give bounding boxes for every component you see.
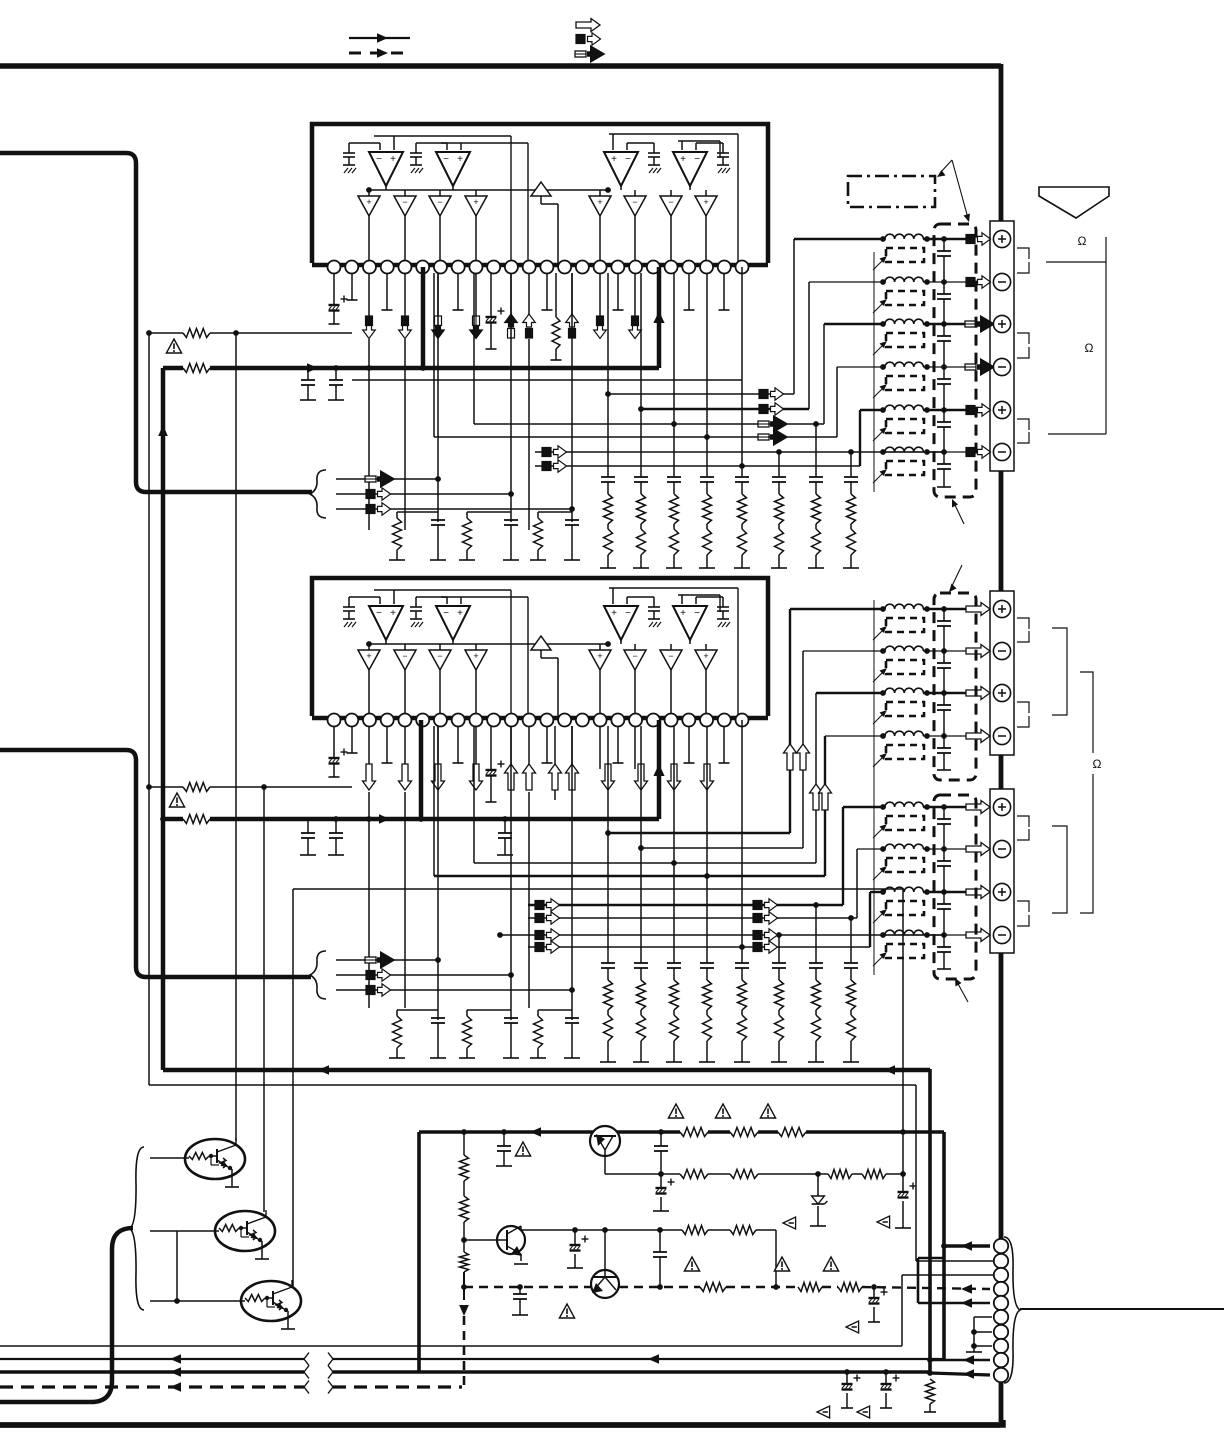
mid bracket group2 (1052, 628, 1067, 715)
svg-text:+: + (390, 608, 396, 619)
IC IC601 driver stage at x=369 (368, 190, 370, 196)
long droppers under markers (368, 792, 370, 1008)
mid bracket group3 (1052, 826, 1067, 913)
zobel column x=674 (673, 424, 675, 477)
IC2 pin24 drop (741, 720, 743, 947)
terminal - y=849 (993, 840, 1010, 857)
zobel column x=851 (850, 452, 852, 477)
bus line 2 (0, 1358, 304, 1360)
ground under pin x=387 (386, 273, 388, 310)
thick riser to IC2 pin19 (657, 720, 662, 819)
ground under pin x=618 (617, 273, 619, 310)
output filter ch y=935 (883, 934, 944, 936)
terminal - y=651 (993, 642, 1010, 659)
IC IC601 op-amp at x=386 (348, 143, 350, 153)
digital transistor at 271,1301 (241, 1281, 301, 1321)
ground under pin x=547 (546, 273, 548, 310)
svg-text:+: + (703, 651, 708, 661)
terminal + y=239 (993, 230, 1010, 247)
input line 2 (336, 974, 511, 976)
zobel column x=816 (815, 905, 817, 963)
sense loop to connector (149, 1084, 916, 1086)
series resistors on top rail (680, 1128, 708, 1137)
IC IC601 op-amp at x=453 (415, 143, 417, 153)
input RC pair at x=397 (397, 511, 438, 513)
svg-text:+: + (611, 608, 617, 619)
zobel column x=707 (706, 437, 708, 477)
coupling cap y=239 (943, 239, 945, 251)
IC1 pin24 drop (741, 267, 743, 466)
cap x=504 inside box (503, 1132, 505, 1146)
R chain left inside box x=464 (463, 1132, 465, 1155)
connector strip group1 (990, 221, 1014, 471)
IC IC601 op-amp at x=621 (653, 143, 655, 153)
electrolytic C under pin10 (490, 726, 492, 770)
power rail vertical (161, 368, 166, 1070)
ground under pin x=724 (723, 726, 725, 763)
dashed control line (464, 1286, 591, 1288)
svg-text:+: + (390, 154, 396, 165)
sense resistor x=930 (926, 1379, 935, 1404)
zobel column x=779 (778, 935, 780, 963)
zobel column x=674 (673, 863, 675, 963)
IC IC601 driver stage at x=706 (705, 190, 707, 196)
svg-text:−: − (632, 197, 637, 207)
terminal - y=935 (993, 926, 1010, 943)
zobel column x=641 (640, 848, 642, 963)
c9 feed (930, 1359, 990, 1362)
svg-text:+: + (366, 651, 371, 661)
coupling cap y=609 (943, 609, 945, 621)
IC IC601 pins (328, 261, 341, 274)
svg-text:−: − (443, 608, 449, 619)
output filter ch y=367 (837, 366, 883, 368)
output filter ch y=609 (790, 608, 883, 610)
IC IC602 pins (328, 714, 341, 727)
input line 2 (336, 493, 511, 495)
callout arrow to shield3 bottom (957, 982, 968, 1002)
electrolytic C under pin1 (333, 273, 335, 305)
IC IC602 op-amp at x=453 (415, 597, 417, 607)
electrolytic C under pin10 (490, 273, 492, 317)
input line 3 (336, 989, 572, 991)
legend open arrow (576, 19, 600, 32)
pair bracket (1017, 248, 1029, 259)
IC IC601 driver stage at x=440 (439, 190, 441, 196)
IC IC601 outline (312, 124, 768, 263)
fold line group23 (873, 600, 875, 975)
IC IC601 driver stage at x=600 (599, 190, 601, 196)
bypass caps section1 (307, 368, 309, 380)
signal arrows under IC2 pins (363, 764, 376, 790)
ground under pin x=387 (386, 726, 388, 763)
speaker bracket group1 (1046, 261, 1106, 263)
bypass caps section2 (307, 819, 309, 833)
power rail horizontal bottom (163, 1068, 930, 1073)
svg-text:−: − (402, 651, 407, 661)
svg-text:−: − (668, 651, 673, 661)
stubs pin to markers (368, 273, 370, 316)
connector brace (1004, 1237, 1020, 1383)
callout arrow to shield2 top (951, 565, 962, 588)
svg-text:−: − (437, 651, 442, 661)
IC IC602 driver stage at x=405 (404, 644, 406, 650)
ground pin2 (351, 273, 353, 300)
output filter ch y=410 (860, 409, 883, 411)
output filter ch y=807 (843, 806, 883, 808)
pair bracket (1017, 816, 1029, 827)
IC IC602 driver stage at x=476 (475, 644, 477, 650)
input brace (310, 951, 326, 999)
cap x=520 under dashed (519, 1287, 521, 1294)
svg-text:−: − (376, 608, 382, 619)
protection circuit top rail (419, 1130, 680, 1134)
caps near connector bottom (844, 1369, 850, 1375)
terminal - y=282 (993, 273, 1010, 290)
line to Q1 (235, 333, 237, 1141)
output filter ch y=282 (809, 281, 883, 283)
line to Q2 (263, 787, 265, 1212)
legend black-square open arrow (576, 35, 585, 44)
ch5 route (535, 465, 860, 467)
coupling cap y=693 (943, 693, 945, 705)
svg-text:+: + (457, 608, 463, 619)
bias line under top rail (605, 1173, 680, 1175)
ch693 route (473, 726, 475, 863)
IC IC602 op-amp at x=386 (348, 597, 350, 607)
input coupling riser x=511 (510, 726, 512, 1020)
shield dashed outline (934, 795, 976, 979)
svg-text:+: + (473, 197, 478, 207)
svg-text:+: + (703, 197, 708, 207)
input coupling riser x=438 (437, 273, 439, 522)
callout arrow to legend box (940, 160, 952, 173)
output filter ch y=324 (824, 323, 883, 325)
riser arrows group2 (784, 744, 797, 770)
input RC pair at x=467 (467, 1009, 511, 1011)
connector strip group2 (990, 591, 1014, 755)
thick drop right x=930 (928, 1069, 932, 1373)
input RC pair at x=397 (397, 1009, 438, 1011)
zobel column x=641 (640, 409, 642, 477)
IC IC602 driver stage at x=600 (599, 644, 601, 650)
speaker symbol (1039, 187, 1109, 218)
ch2 route (640, 273, 642, 409)
connector CN bottom-right (994, 1239, 1008, 1253)
svg-text:+: + (680, 608, 686, 619)
resistor to ground under pin14 (555, 273, 557, 317)
zobel column x=742 (741, 466, 743, 477)
IC IC601 driver stage at x=671 (670, 190, 672, 196)
IC IC602 internal wiring (369, 643, 608, 645)
terminal - y=452 (993, 443, 1010, 460)
svg-text:Ω: Ω (1085, 341, 1094, 355)
coupling cap y=651 (943, 651, 945, 663)
coupling cap y=367 (943, 367, 945, 379)
input RC pair at x=467 (467, 511, 511, 513)
input line 1 (336, 478, 438, 480)
ch935 route straight (500, 934, 944, 936)
IC2 pin6 thick drop (419, 720, 424, 819)
IC IC602 buffer triangle (531, 636, 551, 650)
legend white-square black arrow (575, 51, 586, 57)
svg-text:+: + (457, 154, 463, 165)
R feed thin section2 (149, 786, 183, 788)
svg-text:−: − (694, 154, 700, 165)
ecap x=903 (902, 1174, 904, 1192)
ch736 route (433, 726, 435, 876)
svg-text:+: + (473, 651, 478, 661)
IC IC602 driver stage at x=671 (670, 644, 672, 650)
ch892 route (528, 946, 870, 948)
c5 feed thick (918, 1257, 944, 1260)
R feed thin section1 (149, 332, 183, 334)
terminal - y=736 (993, 727, 1010, 744)
digital transistor at 245,1231 (215, 1211, 275, 1251)
third resistor below junction (463, 1240, 465, 1252)
input coupling riser x=572 (571, 273, 573, 522)
ground under pin x=618 (617, 726, 619, 763)
callout arrow to shield1 bottom (954, 503, 964, 524)
terminal + y=892 (993, 883, 1010, 900)
zobel column x=742 (741, 947, 743, 963)
R feed thick section2 (163, 817, 183, 822)
ground under pin x=458 (457, 273, 459, 310)
ground under pin x=689 (688, 726, 690, 763)
svg-text:−: − (668, 197, 673, 207)
IC IC602 op-amp at x=621 (653, 597, 655, 607)
svg-text:+: + (366, 197, 371, 207)
zobel column x=707 (706, 876, 708, 963)
output filter ch y=892 (870, 891, 883, 893)
transistor Q4 on top rail (590, 1126, 620, 1156)
input coupling riser x=511 (510, 273, 512, 522)
svg-text:+: + (597, 651, 602, 661)
IC IC601 driver stage at x=635 (634, 190, 636, 196)
ch609 route (607, 726, 609, 833)
IC IC601 op-amp at x=690 (722, 143, 724, 153)
feed to connector c1 (944, 1244, 990, 1248)
input coupling riser x=438 (437, 726, 439, 1020)
shield legend box (848, 176, 935, 207)
ground under pin x=724 (723, 273, 725, 310)
coupling cap y=324 (943, 324, 945, 336)
svg-text:−: − (443, 154, 449, 165)
link Q2-Q3 inputs (176, 1231, 178, 1301)
svg-text:−: − (376, 154, 382, 165)
svg-text:+: + (597, 197, 602, 207)
bus line 4 dashed (0, 1385, 304, 1388)
ch1 route (607, 273, 609, 394)
input feed line mid-left (0, 750, 311, 977)
ch849 route (528, 917, 857, 919)
coupling cap y=935 (943, 935, 945, 947)
IC IC601 internal wiring (369, 189, 608, 191)
line to edge from connector (1020, 1308, 1224, 1310)
ch4 route (433, 273, 435, 437)
legend dashed-line arrow (349, 52, 412, 55)
ch807 route (528, 904, 843, 906)
terminal + y=324 (993, 315, 1010, 332)
terminal + y=807 (993, 798, 1010, 815)
input coupling riser x=572 (571, 726, 573, 1020)
fold line group1 (873, 252, 875, 492)
Q5 collector line (520, 1226, 522, 1230)
brace for transistor group (130, 1147, 144, 1310)
svg-text:+: + (611, 154, 617, 165)
cap + ecap column x=661 (660, 1132, 662, 1146)
output filter ch y=452 (883, 451, 944, 453)
c10 feed (930, 1373, 990, 1375)
pair bracket (1017, 702, 1029, 713)
IC IC601 buffer triangle (531, 182, 551, 196)
bus line thin (0, 1345, 902, 1347)
connector strip group3 (990, 789, 1014, 953)
pair bracket (1017, 901, 1029, 912)
svg-text:−: − (402, 197, 407, 207)
terminal + y=693 (993, 684, 1010, 701)
zobel column x=608 (607, 394, 609, 477)
coupling cap y=892 (943, 892, 945, 904)
legend solid-line arrow (349, 37, 410, 39)
ground under pin x=458 (457, 726, 459, 763)
ground under pin x=547 (546, 726, 548, 763)
terminal + y=410 (993, 401, 1010, 418)
pair bracket (1017, 333, 1029, 344)
zobel column x=816 (815, 424, 817, 477)
terminal + y=609 (993, 600, 1010, 617)
protection box left rail (417, 1132, 421, 1372)
pair bracket (1017, 618, 1029, 629)
zobel column x=851 (850, 918, 852, 963)
IC IC601 driver stage at x=476 (475, 190, 477, 196)
output filter ch y=239 (794, 238, 883, 240)
ch3 route (473, 273, 475, 424)
ground under pin x=689 (688, 273, 690, 310)
coupling cap y=736 (943, 736, 945, 748)
svg-text:−: − (625, 154, 631, 165)
ecap x=575 (574, 1230, 576, 1245)
pair bracket (1017, 419, 1029, 430)
svg-text:−: − (694, 608, 700, 619)
return arrow on bus2 (648, 1354, 659, 1364)
input line 1 (336, 959, 438, 961)
long droppers under markers (368, 339, 370, 530)
main board border (0, 63, 1001, 69)
IC IC602 driver stage at x=440 (439, 644, 441, 650)
sense rail vertical (148, 333, 150, 1085)
zener to gnd (817, 1174, 819, 1196)
output filter ch y=736 (825, 735, 883, 737)
ecap x=874 under dashed (873, 1287, 875, 1298)
IC1 pin6 thick drop (421, 267, 426, 368)
transistor Q5 (497, 1226, 525, 1254)
IC IC602 driver stage at x=706 (705, 644, 707, 650)
coupling cap y=410 (943, 410, 945, 422)
input RC pair at x=538 (538, 511, 572, 513)
svg-text:Ω: Ω (1093, 757, 1102, 771)
coupling cap y=849 (943, 849, 945, 861)
signal arrows under IC1 pins (366, 316, 373, 326)
IC IC601 driver stage at x=405 (404, 190, 406, 196)
electrolytic C under pin1 (333, 726, 335, 758)
aux line y380 (352, 379, 742, 381)
IC IC602 outline (312, 578, 768, 716)
svg-text:−: − (632, 651, 637, 661)
protection box right rail (942, 1132, 946, 1359)
shield dashed outline (934, 593, 976, 780)
IC IC602 op-amp at x=690 (722, 597, 724, 607)
R feed thick section1 (163, 366, 183, 371)
cap x=660 to dashed (659, 1230, 661, 1252)
c6-c8 stub network (974, 1316, 992, 1318)
IC IC602 driver stage at x=635 (634, 644, 636, 650)
output filter ch y=651 (803, 650, 883, 652)
zobel column x=608 (607, 833, 609, 963)
ground pin2 (351, 726, 353, 753)
svg-text:−: − (625, 608, 631, 619)
bus line 3 thick (0, 1370, 304, 1374)
thick return line bottom-left (0, 1228, 133, 1402)
output filter ch y=693 (816, 692, 883, 694)
svg-text:−: − (437, 197, 442, 207)
tall bracket group23 (1080, 672, 1093, 753)
transistor Q6 on dashed line (591, 1270, 619, 1298)
input RC pair at x=538 (538, 1009, 572, 1011)
svg-text:Ω: Ω (1078, 234, 1087, 248)
line from Q3 up (292, 889, 294, 1287)
digital transistor at 215,1159 (185, 1139, 245, 1179)
output filter ch y=849 (857, 848, 883, 850)
coupling cap y=282 (943, 282, 945, 294)
IC IC602 driver stage at x=369 (368, 644, 370, 650)
thick riser to IC1 pin19 (657, 267, 662, 368)
input feed line top-left (0, 153, 312, 492)
callout arrow to shield top (952, 160, 968, 218)
ch651 route (640, 726, 642, 848)
stubs pin to markers (368, 726, 370, 769)
input brace (310, 470, 326, 518)
coupling cap y=452 (943, 452, 945, 464)
terminal - y=367 (993, 358, 1010, 375)
svg-text:+: + (680, 154, 686, 165)
coupling cap y=807 (943, 807, 945, 819)
ch6 route straight (535, 451, 944, 453)
shield dashed outline (934, 224, 976, 497)
input line 3 (336, 508, 572, 510)
zobel column x=779 (778, 452, 780, 477)
